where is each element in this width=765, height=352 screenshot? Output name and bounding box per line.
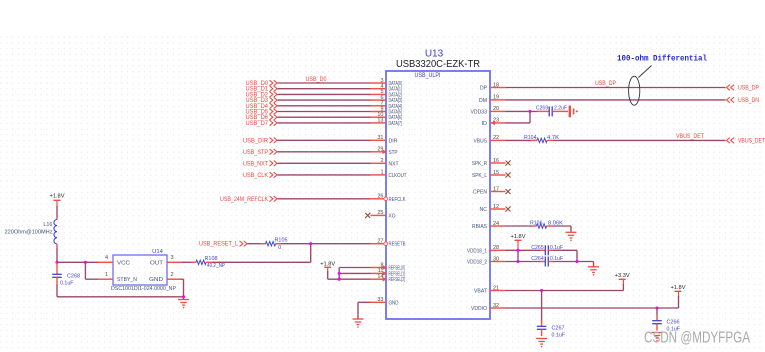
svg-text:SPK_R: SPK_R (472, 161, 487, 167)
svg-text:R105: R105 (275, 238, 288, 244)
svg-text:USB_D0: USB_D0 (306, 77, 328, 83)
svg-text:+1.8V: +1.8V (671, 285, 686, 291)
U13 pin 17 CPEN (right) (473, 186, 511, 195)
IC U13 USB3320C-EZK-TR body (386, 71, 490, 319)
U13 pin 2 NXT (left) (371, 158, 400, 167)
svg-text:VDD33: VDD33 (471, 109, 488, 115)
U13 pin 1 CLKOUT (left) (371, 170, 408, 179)
svg-text:1: 1 (380, 170, 383, 176)
IC U14 oscillator body (113, 255, 167, 285)
wire R104 to VBUS_DET port (553, 139, 726, 141)
svg-text:40.2_NP: 40.2_NP (207, 263, 225, 269)
wire DM to port (506, 99, 726, 101)
power +3.3V (619, 278, 626, 280)
svg-text:VDD18_2: VDD18_2 (467, 260, 487, 266)
wire USB_D2 (278, 93, 371, 95)
port USB_D0 (246, 80, 278, 87)
junction REFSEL[1] (338, 272, 341, 275)
junction VDDIO/C266 (655, 306, 658, 309)
U13 pin 30 VDD18_2 (right) (467, 256, 506, 265)
U13 pin 10 DATA[6] (left) (371, 112, 403, 121)
wire USB_24M_REFCLK (278, 198, 371, 200)
wire USB_D7 (278, 122, 371, 124)
U13 pin 26 REFCLK (left) (371, 194, 406, 203)
wire C265 to corner (553, 249, 577, 251)
ground (C266) (652, 333, 663, 339)
svg-text:C266: C266 (667, 320, 680, 326)
U13 pin 7 DATA[4] (left) (371, 101, 403, 110)
ground (rotated right, VDD33) (570, 106, 574, 118)
svg-text:17: 17 (493, 186, 499, 192)
capacitor C265 0.1uF (531, 245, 563, 256)
junction VDD18_2 (516, 260, 519, 263)
svg-text:STP: STP (389, 150, 398, 156)
U13 pin 27 RESETB (left) (371, 239, 406, 248)
svg-text:31: 31 (377, 135, 383, 141)
U13 pin 5 DATA[2] (left) (371, 89, 403, 98)
wire +3.3V riser (622, 279, 624, 285)
svg-text:3: 3 (171, 255, 174, 261)
junction VDD18_1 (516, 249, 519, 252)
svg-text:+1.8V: +1.8V (50, 193, 65, 199)
junction REFSEL[2] (338, 278, 341, 281)
junction VBAT/C267 (540, 289, 543, 292)
junction L16/C268 (55, 261, 58, 264)
U13 pin 22 VBUS (right) (474, 135, 506, 144)
U13 pin 18 DP (right) (480, 82, 506, 91)
port USB_STP (243, 149, 277, 156)
svg-text:+3.3V: +3.3V (615, 273, 630, 279)
svg-text:USB_RESET_L: USB_RESET_L (199, 242, 239, 248)
svg-text:2: 2 (171, 272, 174, 278)
U14 pin 4 VCC (98, 255, 130, 266)
capacitor C269 2.2uF (536, 105, 568, 116)
port VBUS_DET (727, 138, 765, 145)
wire C266 drop (656, 308, 658, 315)
ground (VDD18) (588, 267, 599, 273)
port USB_D1 (246, 86, 278, 93)
svg-text:RESETB: RESETB (389, 242, 406, 248)
wire +1.8V riser between rows (517, 250, 519, 261)
U13 pin 31 DIR (left) (371, 135, 398, 144)
U13 pin 8 REFSEL[0] (left) (371, 262, 406, 271)
svg-text:25: 25 (377, 210, 383, 216)
svg-text:32: 32 (493, 303, 499, 309)
svg-text:USB_DP: USB_DP (738, 86, 759, 92)
svg-text:CPEN: CPEN (473, 190, 487, 196)
svg-text:VBUS_DET: VBUS_DET (738, 138, 765, 144)
svg-text:18: 18 (493, 82, 499, 88)
ground (U14) (178, 300, 189, 306)
port USB_DN (727, 97, 760, 104)
svg-text:C264: C264 (531, 256, 544, 262)
svg-text:28: 28 (493, 245, 499, 251)
svg-text:ID: ID (482, 121, 488, 127)
svg-text:30: 30 (493, 256, 499, 262)
wire VBAT row (506, 290, 624, 292)
svg-text:USB3320C-EZK-TR: USB3320C-EZK-TR (396, 58, 480, 70)
port USB_D6 (246, 114, 278, 121)
port USB_CLK (243, 172, 277, 179)
svg-text:USB_DIR: USB_DIR (243, 138, 269, 144)
svg-text:VCC: VCC (117, 260, 130, 266)
wire GND pin 33 (358, 301, 371, 303)
wire USB_RESET_L to R105 (248, 243, 261, 245)
svg-text:U14: U14 (152, 249, 163, 255)
svg-text:NXT: NXT (389, 161, 400, 167)
svg-text:REFSEL[2]: REFSEL[2] (389, 277, 406, 283)
power +1.8V (top-left) (54, 199, 61, 201)
wire USB_D4 (278, 105, 371, 107)
wire R105 to RESETB pin 27 (281, 243, 371, 245)
U13 pin 28 VDD18_1 (right) (467, 245, 506, 254)
capacitor C266 0.1uF (652, 315, 680, 333)
U13 pin 14 REFSEL[2] (left) (371, 274, 406, 283)
junction STBY branch (84, 261, 87, 264)
wire bottom ground rail (57, 296, 184, 298)
U13 pin 23 ID (right) (482, 118, 506, 127)
U13 pin 11 REFSEL[1] (left) (371, 268, 406, 277)
svg-text:13: 13 (377, 118, 383, 124)
power +1.8V (REFSEL) (324, 266, 331, 268)
svg-text:15: 15 (493, 170, 499, 176)
wire VCC rail horizontal (57, 261, 98, 263)
svg-text:16: 16 (493, 158, 499, 164)
U13 pin 24 RBIAS (right) (472, 221, 506, 230)
port USB_D7 (246, 120, 278, 127)
junction at RESETB / R108 branch (309, 242, 312, 245)
svg-text:REFCLK: REFCLK (389, 197, 406, 203)
svg-text:26: 26 (377, 194, 383, 200)
wire VDD18_2 row (506, 261, 541, 263)
wire REFSEL riser (338, 268, 340, 280)
capacitor C268 0.1uF (52, 262, 80, 286)
port USB_RESET_L (199, 241, 247, 248)
svg-text:C268: C268 (67, 274, 80, 280)
svg-text:12: 12 (493, 204, 499, 210)
U13 pin 6 DATA[3] (left) (371, 95, 403, 104)
svg-text:4: 4 (105, 255, 108, 261)
svg-text:NC: NC (480, 207, 488, 213)
capacitor C267 0.1uF (537, 321, 566, 339)
port USB_DP (727, 85, 760, 92)
port USB_D4 (246, 103, 278, 110)
wire USB_NXT (278, 162, 371, 164)
svg-text:VBUS_DET: VBUS_DET (676, 134, 704, 140)
svg-text:USB_STP: USB_STP (243, 150, 268, 156)
svg-text:USB_DP: USB_DP (595, 81, 616, 87)
svg-text:XO: XO (389, 213, 397, 219)
wire R108 to RESETB branch (213, 261, 311, 263)
wire DP to port (506, 87, 726, 89)
U13 pin 25 XO (left) (365, 210, 396, 219)
svg-text:DM: DM (479, 98, 487, 104)
svg-text:21: 21 (493, 285, 499, 291)
port USB_D2 (246, 92, 278, 99)
svg-text:VDDIO: VDDIO (471, 306, 488, 312)
wire +1.8V lead down (517, 240, 519, 250)
svg-text:R108: R108 (205, 256, 218, 262)
wire VBUS to R104 (506, 139, 532, 141)
resistor R104 4.7K (524, 135, 559, 143)
U13 pin 9 DATA[5] (left) (371, 106, 403, 115)
U13 pin 4 DATA[1] (left) (371, 84, 403, 93)
wire STBY_N branch (84, 262, 86, 279)
wire U14 GND down (180, 278, 184, 280)
svg-text:0.1uF: 0.1uF (552, 333, 566, 339)
svg-text:CLKOUT: CLKOUT (389, 173, 408, 179)
svg-text:2: 2 (380, 158, 383, 164)
svg-text:20: 20 (493, 106, 499, 112)
svg-text:R106: R106 (530, 221, 543, 227)
svg-text:USB_CLK: USB_CLK (243, 173, 268, 179)
svg-text:0: 0 (278, 245, 281, 251)
svg-text:C267: C267 (552, 326, 565, 332)
svg-text:STBY_N: STBY_N (117, 277, 137, 283)
svg-text:33: 33 (377, 297, 383, 303)
svg-text:R104: R104 (524, 135, 537, 141)
svg-text:24: 24 (493, 221, 499, 227)
wire C267 drop (541, 291, 543, 321)
port USB_D5 (246, 109, 278, 116)
U13 pin 15 SPK_L (right) (472, 170, 511, 179)
svg-text:0.1uF: 0.1uF (60, 281, 74, 287)
U13 pin 12 NC (right) (480, 204, 511, 213)
resistor R105 0 ohm (261, 238, 288, 251)
port USB_24M_REFCLK (220, 196, 277, 203)
resistor R106 8.06K (530, 221, 563, 229)
svg-text:SPK_L: SPK_L (472, 173, 487, 179)
svg-text:CSDN @MDYFPGA: CSDN @MDYFPGA (644, 330, 750, 347)
U13 pin 19 DM (right) (479, 95, 506, 104)
svg-text:DATA[7]: DATA[7] (389, 121, 403, 127)
svg-text:+1.8V: +1.8V (511, 234, 526, 240)
wire R106 to ground (554, 225, 572, 227)
wire USB_D6 (278, 116, 371, 118)
svg-text:1: 1 (105, 272, 108, 278)
wire USB_CLK (278, 174, 371, 176)
svg-text:USB_D7: USB_D7 (246, 121, 269, 127)
wire branch down to R108/OUT row (310, 244, 312, 263)
inductor L16 220Ohm@100MHz (5, 217, 58, 248)
svg-text:USB_NXT: USB_NXT (243, 161, 268, 167)
junction GND rail (182, 295, 185, 298)
resistor R108 40.2_NP (182, 256, 225, 269)
wire +1.8V to L16 (56, 200, 58, 207)
power +1.8V (VDDIO) (675, 290, 682, 292)
svg-text:RBIAS: RBIAS (472, 224, 487, 230)
svg-text:GND: GND (149, 277, 163, 283)
U13 pin 29 STP (left) (371, 147, 398, 156)
svg-text:C265: C265 (531, 245, 544, 251)
power +1.8V (VDD18) (515, 239, 522, 241)
ground (C267) (536, 339, 547, 345)
annotation ellipse around pair (629, 76, 640, 105)
U13 pin 16 SPK_R (right) (472, 158, 511, 167)
wire USB_DIR (278, 139, 371, 141)
svg-text:100-ohm Differential: 100-ohm Differential (617, 54, 707, 64)
wire C264 to ground corner (553, 261, 594, 263)
U14 pin 1 STBY_N (98, 272, 137, 283)
port USB_NXT (243, 161, 277, 168)
wire VDDIO row (506, 307, 679, 309)
annotation leader line (639, 66, 652, 78)
svg-text:DP: DP (480, 86, 487, 92)
wire +1.8V riser (VDDIO) (678, 291, 680, 297)
wire REFSEL[1] row (339, 272, 370, 274)
svg-text:USB_24M_REFCLK: USB_24M_REFCLK (220, 197, 268, 203)
port USB_D3 (246, 97, 278, 104)
svg-text:+1.8V: +1.8V (320, 261, 335, 267)
svg-text:VBAT: VBAT (474, 289, 488, 295)
svg-text:VDD18_1: VDD18_1 (467, 248, 487, 254)
wire USB_D0 (278, 82, 371, 84)
svg-text:2.2uF: 2.2uF (554, 105, 568, 111)
wire C268 down to bottom rail (56, 284, 58, 297)
wire USB_D3 (278, 99, 371, 101)
port USB_DIR (243, 138, 277, 145)
svg-text:19: 19 (493, 95, 499, 101)
U13 pin 13 DATA[7] (left) (371, 118, 403, 127)
svg-text:USB_ULPI: USB_ULPI (415, 73, 441, 79)
U13 pin 33 GND (left) (371, 297, 399, 306)
U14 pin 3 OUT (150, 255, 182, 266)
svg-text:USB_DN: USB_DN (738, 98, 759, 104)
junction C265/C264 join (575, 260, 578, 263)
svg-text:GND: GND (389, 300, 399, 306)
wire ID branch (529, 111, 531, 123)
wire L16 to VCC rail (56, 248, 58, 262)
junction VDD33/ID (528, 110, 531, 113)
svg-text:L16: L16 (43, 222, 52, 228)
wire RBIAS to R106 (506, 225, 532, 227)
svg-text:22: 22 (493, 135, 499, 141)
wire VDD33 (506, 110, 538, 112)
U13 pin 20 VDD33 (right) (471, 106, 506, 115)
svg-text:DSC1001DI1-024.0000_NP: DSC1001DI1-024.0000_NP (111, 286, 176, 292)
capacitor C264 0.1uF (531, 256, 563, 267)
U13 pin 3 DATA[0] (left) (371, 78, 403, 87)
wire REFSEL[0] row (339, 267, 370, 269)
svg-text:27: 27 (377, 239, 383, 245)
wire USB_D5 (278, 111, 371, 113)
wire USB_STP (278, 151, 371, 153)
svg-text:OUT: OUT (150, 260, 164, 266)
svg-text:220Ohm@100MHz: 220Ohm@100MHz (5, 230, 53, 236)
ground (U13 GND) (353, 319, 364, 325)
U14 pin 2 GND (149, 272, 180, 283)
svg-text:C269: C269 (536, 105, 548, 111)
U13 pin 21 VBAT (right) (474, 285, 506, 294)
svg-text:VBUS: VBUS (474, 138, 488, 144)
U13 pin 32 VDDIO (right) (471, 303, 506, 312)
wire VDD18_1 row (506, 249, 541, 251)
wire USB_D1 (278, 88, 371, 90)
svg-text:DIR: DIR (389, 138, 398, 144)
ground (RBIAS) (566, 232, 577, 238)
wire +1.8V to REFSEL[2] row (327, 267, 329, 272)
